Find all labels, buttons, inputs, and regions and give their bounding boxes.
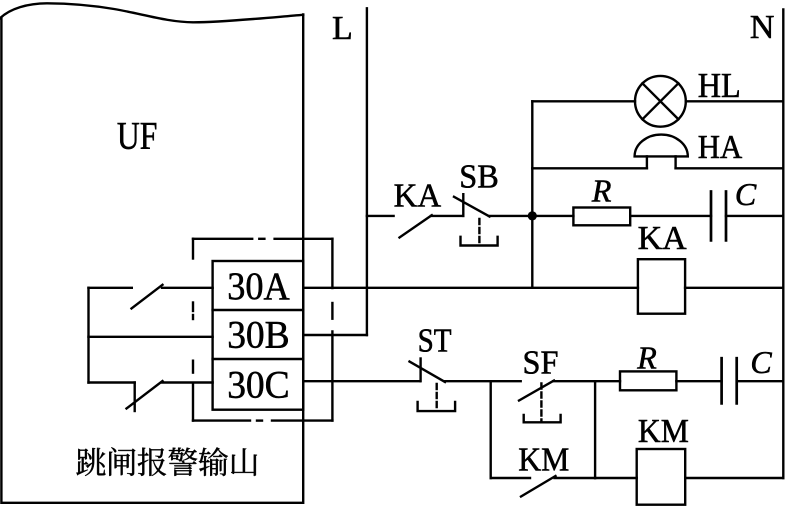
svg-text:KM: KM [638, 413, 689, 450]
line N [782, 10, 784, 479]
wire 30C row (right) [303, 380, 420, 382]
svg-text:KM: KM [518, 442, 569, 479]
svg-text:L: L [332, 10, 353, 47]
capacitor C (upper) [711, 192, 726, 241]
horn HA (bell) [635, 135, 688, 169]
contact on 30C line (left) [89, 381, 213, 411]
Chinese label char 闸 [109, 447, 135, 475]
contact on 30A line (left) [89, 285, 213, 309]
wire lamp to N [686, 100, 784, 102]
svg-text:N: N [750, 9, 775, 46]
wire to KM coil [595, 477, 637, 479]
svg-text:SF: SF [523, 345, 559, 382]
svg-text:30B: 30B [227, 314, 290, 357]
svg-text:C: C [735, 176, 757, 212]
wire L to KA contact [367, 215, 394, 217]
svg-text:30A: 30A [227, 265, 290, 308]
capacitor C (lower) [722, 358, 737, 403]
label 跳闸报警输山 (trip alarm output) [76, 447, 257, 476]
contact KM (NO self-hold) [521, 476, 595, 497]
svg-text:R: R [591, 173, 612, 209]
left bus wire (vertical) [87, 288, 89, 383]
contact KA (NO) [400, 215, 464, 237]
pushbutton SF (NO start) [519, 381, 595, 423]
svg-text:HL: HL [698, 66, 741, 105]
wire to SF [491, 380, 521, 382]
vertical branch wire at node [531, 101, 533, 287]
wire R to C (lower) [676, 380, 721, 382]
svg-text:C: C [750, 344, 772, 380]
svg-text:KA: KA [394, 178, 442, 215]
pushbutton ST (NC stop) [410, 359, 491, 412]
Chinese label char 山 [231, 448, 257, 476]
Chinese label char 警 [168, 448, 197, 476]
dash-dot enclosure box [193, 239, 332, 421]
wire 30B row (right) [303, 334, 367, 336]
svg-text:30C: 30C [227, 364, 290, 407]
Chinese label char 报 [138, 448, 166, 476]
wire KA coil to N [685, 287, 783, 289]
wire to lamp HL [532, 100, 635, 102]
svg-text:KA: KA [638, 220, 687, 257]
wire to resistor R (lower) [595, 380, 620, 382]
wire node to resistor R (upper) [532, 215, 573, 217]
relay coil KA [638, 259, 685, 314]
line L [366, 8, 368, 335]
svg-text:SB: SB [459, 159, 499, 196]
resistor R (upper) [573, 208, 630, 226]
wire KM coil to N [685, 477, 783, 479]
svg-text:HA: HA [698, 129, 743, 166]
contactor coil KM [637, 449, 686, 505]
pushbutton SB (NC stop) [454, 194, 532, 245]
Chinese label char 输 [199, 447, 228, 476]
resistor R (lower) [620, 371, 676, 390]
branch vertical (left, to KM contact) [490, 381, 492, 478]
Chinese label char 跳 [76, 448, 105, 476]
wire 30B (left) [89, 336, 213, 338]
branch vertical (right) [594, 381, 596, 478]
wire to horn HA [532, 167, 647, 169]
wire C to N (lower) [737, 380, 784, 382]
svg-text:UF: UF [117, 115, 157, 158]
lamp HL [635, 76, 686, 127]
wire R to C (upper) [630, 215, 711, 217]
terminal block box 30A/30B/30C [213, 261, 304, 410]
wire KM contact row (left) [491, 477, 530, 479]
svg-text:ST: ST [418, 323, 452, 360]
wire horn to N [676, 167, 784, 169]
wire 30A row (right) [303, 287, 638, 289]
svg-text:R: R [636, 340, 657, 376]
UF device box (torn-paper outline) [0, 3, 303, 503]
wire C to N (upper) [726, 215, 783, 217]
node junction dot [528, 211, 537, 220]
